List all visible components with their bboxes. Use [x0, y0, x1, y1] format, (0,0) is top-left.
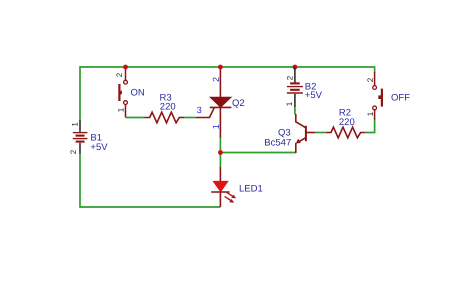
svg-text:220: 220: [160, 102, 176, 113]
wire: top rail to OFF button: [374, 66, 376, 72]
junction dot: Q2 anode: [218, 65, 223, 70]
svg-text:3: 3: [197, 105, 202, 115]
svg-text:2: 2: [366, 77, 375, 82]
junction dot: ON top: [123, 65, 128, 70]
svg-text:1: 1: [366, 111, 375, 116]
push button ON: [119, 67, 127, 117]
svg-text:2: 2: [69, 149, 78, 154]
svg-text:Bc547: Bc547: [264, 137, 291, 148]
svg-text:ON: ON: [131, 88, 145, 99]
wire: R3 to Q2 gate: [184, 117, 196, 119]
svg-text:+5V: +5V: [90, 142, 108, 153]
svg-text:2: 2: [211, 77, 221, 82]
transistor Q3: [296, 114, 316, 153]
svg-text:Q2: Q2: [232, 98, 245, 109]
push button OFF: [373, 72, 382, 120]
svg-text:1: 1: [285, 101, 294, 106]
svg-text:+5V: +5V: [305, 90, 323, 101]
wire: left rail upper (to B1 pin 1): [79, 66, 81, 120]
wire: ON button to R3: [126, 117, 145, 119]
wire: R2 to OFF button: [365, 120, 374, 133]
svg-text:2: 2: [115, 72, 124, 77]
wire: left rail lower (B1 pin 2 to bottom rail): [79, 153, 81, 208]
LED LED1: [211, 167, 236, 207]
svg-text:1: 1: [70, 122, 79, 127]
wire: top rail: [80, 66, 375, 68]
wire: Q3 base to R2: [315, 132, 326, 134]
wire: Q2 cathode down through node to LED1: [219, 137, 221, 167]
resistor R3: [145, 112, 185, 123]
wire: B2 pin 1 to Q3 collector: [294, 107, 296, 115]
svg-text:1: 1: [117, 107, 126, 112]
svg-text:OFF: OFF: [391, 92, 410, 103]
battery B2: [287, 68, 303, 107]
wire: emitter row Q2 node to Q3: [220, 152, 295, 154]
svg-text:2: 2: [286, 75, 295, 80]
svg-text:1: 1: [211, 124, 221, 129]
battery B1: [73, 120, 88, 154]
junction dot: Q2 cathode node: [218, 150, 223, 155]
wire: bottom rail: [80, 206, 220, 208]
junction dot: B2 top: [293, 65, 298, 70]
svg-text:220: 220: [339, 117, 355, 128]
svg-text:LED1: LED1: [239, 183, 263, 194]
thyristor Q2: [196, 68, 231, 138]
resistor R2: [327, 127, 366, 138]
